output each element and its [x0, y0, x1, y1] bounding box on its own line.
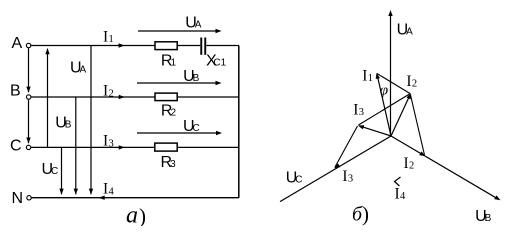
svg-text:A: A	[12, 35, 23, 52]
svg-text:C: C	[10, 138, 22, 155]
voltage arrow UC horizontal	[137, 132, 218, 134]
svg-text:2: 2	[109, 88, 114, 99]
resistor R1	[155, 42, 177, 50]
svg-text:A: A	[195, 20, 202, 31]
wire neutral N	[31, 197, 239, 199]
svg-text:B: B	[193, 73, 200, 84]
svg-text:N: N	[12, 190, 24, 207]
svg-text:1: 1	[109, 34, 114, 45]
resistor R3	[155, 143, 177, 151]
svg-text:I: I	[362, 68, 367, 85]
current arrow I4 (leftward)	[99, 196, 105, 200]
current arrow I3	[119, 145, 125, 149]
svg-text:2: 2	[171, 108, 177, 119]
svg-text:I: I	[103, 82, 108, 99]
svg-text:4: 4	[109, 186, 115, 197]
phasor vector I2 upper	[391, 96, 410, 136]
svg-text:I: I	[404, 155, 409, 172]
svg-text:C1: C1	[213, 58, 226, 69]
node A terminal circle	[26, 43, 30, 47]
resistor R2	[155, 93, 177, 101]
wire phase-voltage arrow UB vertical	[75, 97, 77, 194]
construction line I3 tip to I2 tip	[359, 94, 410, 125]
wire phase-voltage arrow UA vertical	[90, 46, 92, 195]
svg-text:а: а	[126, 203, 138, 227]
construction line I1 tip to I2 tip	[377, 74, 410, 94]
svg-text:3: 3	[348, 173, 353, 184]
svg-text:B: B	[65, 119, 72, 130]
wire line-voltage arrow A to B	[28, 48, 30, 92]
node C terminal circle	[26, 145, 30, 149]
svg-text:C: C	[295, 175, 302, 186]
phasor axis UC	[280, 136, 391, 202]
phasor vector I1	[378, 77, 392, 137]
svg-text:): )	[139, 204, 146, 226]
voltage arrow UB horizontal	[137, 82, 217, 84]
I4 arrow mark	[395, 177, 401, 186]
wire line-voltage arrow B to C	[28, 100, 30, 144]
capacitor XC1 plates	[200, 38, 202, 55]
svg-text:3: 3	[170, 159, 176, 170]
current arrow I1	[119, 43, 125, 47]
svg-text:1: 1	[368, 73, 373, 84]
svg-text:φ: φ	[380, 83, 388, 99]
svg-text:A: A	[80, 65, 87, 76]
svg-text:3: 3	[109, 138, 114, 149]
svg-text:I: I	[395, 185, 400, 202]
phasor axis UA	[390, 13, 392, 136]
svg-text:C: C	[193, 123, 200, 134]
node B terminal circle	[27, 95, 31, 99]
svg-text:I: I	[353, 102, 358, 119]
phasor vector I3 upper	[361, 126, 391, 136]
svg-text:): )	[362, 202, 369, 226]
svg-text:2: 2	[412, 78, 417, 89]
svg-text:4: 4	[400, 191, 406, 202]
voltage arrow UA horizontal	[138, 30, 217, 32]
svg-text:I: I	[103, 181, 108, 198]
construction line I2 tip down to I2 lower tip	[411, 95, 425, 155]
svg-text:I: I	[103, 28, 108, 45]
wire phase C	[31, 146, 239, 148]
svg-text:A: A	[406, 27, 413, 38]
wire phase A	[31, 45, 239, 47]
wire line-voltage arrow C to A (up)	[47, 49, 49, 148]
svg-text:I: I	[406, 73, 411, 90]
phasor axis UB	[391, 136, 498, 199]
node N terminal circle	[27, 196, 31, 200]
phasor vector I3 lower arrowhead	[334, 163, 340, 168]
wire phase B	[31, 96, 239, 98]
svg-text:3: 3	[359, 107, 364, 118]
svg-text:B: B	[485, 213, 492, 224]
svg-text:2: 2	[409, 160, 414, 171]
svg-text:1: 1	[171, 58, 177, 69]
svg-text:C: C	[51, 166, 58, 177]
wire right bus	[238, 46, 240, 198]
svg-text:I: I	[103, 133, 108, 150]
current arrow I2	[119, 95, 125, 99]
wire phase-voltage arrow UC vertical	[61, 147, 63, 194]
svg-text:B: B	[10, 83, 21, 100]
construction line I3 tip down to I3 lower tip	[335, 126, 358, 167]
phasor vector I2 lower arrowhead	[419, 151, 425, 156]
svg-text:I: I	[342, 168, 347, 185]
